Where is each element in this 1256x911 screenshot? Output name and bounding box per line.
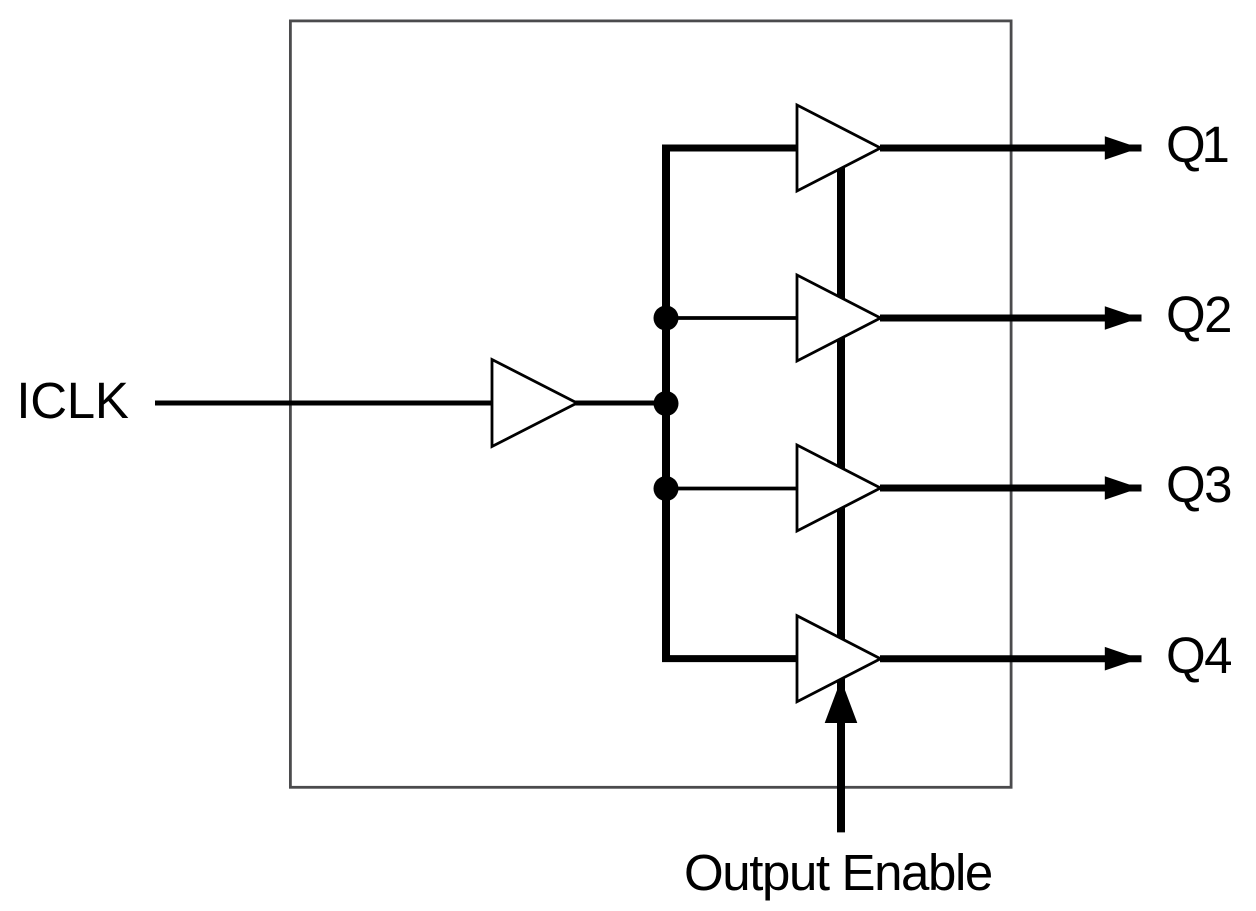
wire Q2 output xyxy=(880,315,1142,322)
buffer U5 for Q4 xyxy=(797,616,881,702)
junction node row2 xyxy=(654,306,679,331)
svg-text:Q4: Q4 xyxy=(1166,627,1231,684)
buffer U2 for Q1 xyxy=(797,105,881,191)
svg-text:Q2: Q2 xyxy=(1166,286,1231,343)
wire ICLK input xyxy=(155,401,494,406)
wire Q1 output xyxy=(880,145,1142,152)
arrowhead Q3 xyxy=(1105,476,1140,500)
svg-text:Q1: Q1 xyxy=(1166,116,1230,173)
wire bus to buffer row1 xyxy=(662,145,798,152)
arrowhead Q2 xyxy=(1105,306,1140,330)
buffer U4 for Q3 xyxy=(797,445,881,531)
junction node input xyxy=(654,391,679,416)
chip boundary box xyxy=(290,21,1011,787)
wire Q3 output xyxy=(880,485,1142,492)
svg-text:Q3: Q3 xyxy=(1166,456,1231,513)
junction node row3 xyxy=(654,476,679,501)
wire bus vertical xyxy=(662,148,670,659)
wire bus to buffer row2 xyxy=(666,316,798,320)
arrowhead output enable xyxy=(825,680,858,724)
wire input buffer output to bus node xyxy=(575,401,666,406)
wire bus to buffer row3 xyxy=(666,487,798,491)
arrowhead Q1 xyxy=(1105,136,1140,160)
wire output enable vertical xyxy=(837,167,845,832)
svg-text:ICLK: ICLK xyxy=(16,372,128,429)
svg-text:Output Enable: Output Enable xyxy=(684,844,992,901)
wire bus to buffer row4 xyxy=(662,655,798,662)
buffer U1 input clock buffer xyxy=(492,360,577,447)
buffer U3 for Q2 xyxy=(797,275,881,361)
wire Q4 output xyxy=(880,655,1142,662)
arrowhead Q4 xyxy=(1105,647,1140,671)
